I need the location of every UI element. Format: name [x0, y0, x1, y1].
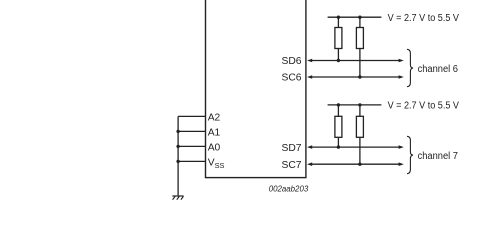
- svg-text:SD7: SD7: [281, 143, 301, 154]
- svg-text:002aab203: 002aab203: [269, 185, 309, 194]
- svg-text:SD6: SD6: [281, 56, 301, 67]
- svg-text:channel 6: channel 6: [418, 64, 459, 75]
- svg-text:A2: A2: [208, 113, 221, 124]
- svg-text:V = 2.7 V to 5.5 V: V = 2.7 V to 5.5 V: [388, 101, 460, 112]
- svg-text:A1: A1: [208, 128, 221, 139]
- svg-text:A0: A0: [208, 143, 221, 154]
- svg-text:V = 2.7 V to 5.5 V: V = 2.7 V to 5.5 V: [388, 13, 460, 24]
- svg-text:channel 7: channel 7: [418, 151, 459, 162]
- svg-text:SC7: SC7: [281, 160, 301, 171]
- svg-text:VSS: VSS: [208, 158, 225, 170]
- svg-text:SC6: SC6: [281, 73, 301, 84]
